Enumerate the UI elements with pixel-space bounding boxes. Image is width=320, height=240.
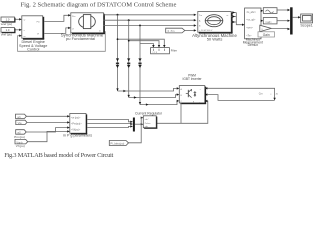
machine m output stubs [231,12,236,14]
svg-text:Pulses: Pulses [145,123,151,125]
svg-text:Gain: Gain [263,33,270,37]
svg-text:50 HP 460 V: 50 HP 460 V [201,30,213,32]
phase wire C [104,25,195,27]
svg-text:<vs_qd>: <vs_qd> [246,18,256,21]
constant block wref [1,17,16,23]
PI_Iabc from tag [109,141,128,146]
wire tag2 to params [27,121,68,123]
feedback wire m to control input [18,32,106,52]
constant block Vref [1,28,16,34]
wire control Pm to sync machine [44,15,68,21]
wire Tm tag to machine [185,29,194,31]
from tag 2 [16,120,27,125]
wire tag4 to params [28,131,68,141]
vertical drop C [139,26,141,105]
svg-text:<is_abc>: <is_abc> [246,11,256,14]
scope block [301,14,313,23]
svg-text:PI_Iabc(pu): PI_Iabc(pu) [110,142,124,146]
gate riser from current regulator [156,101,208,123]
gain label box [258,32,275,37]
bus wire C to inverter [140,101,177,105]
node C [139,25,141,27]
params outputs to regulator mux [87,120,130,122]
signal block A [263,8,277,14]
gate tap to block bottom [180,103,182,123]
connector pair symbol phase C [138,58,142,68]
node A [117,14,119,16]
svg-text:<wm>: <wm> [246,26,253,29]
from tag 4 [15,139,28,144]
phase wire A [104,14,195,16]
PWM IGBT inverter block [179,86,206,105]
bus wire B to inverter [129,95,177,98]
wire const1 to control [16,18,21,20]
from tag 3 [16,130,27,135]
wire mux to regulator [135,123,141,125]
wire block B to mux [277,20,288,22]
svg-text:Scope1: Scope1 [300,23,313,27]
wire demux to gain [260,27,261,29]
wire tag1 to params [26,115,67,117]
phase wire B [104,19,195,21]
svg-text:50 Watts: 50 Watts [207,37,223,42]
wire control Vf to sync machine [44,28,68,34]
svg-text:<w (pu)>: <w (pu)> [71,116,81,119]
wire demux to block B [260,20,263,22]
PI tag riser wire [129,118,142,143]
IGBT icon [187,90,189,97]
regulator input arrows [141,117,144,119]
svg-text:Pm: Pm [72,16,75,18]
from tag 1 [16,114,27,119]
vertical drop A [117,15,119,91]
tap wire A to filter [118,39,165,45]
svg-text:Control: Control [27,47,39,51]
svg-text:m: m [24,36,26,38]
svg-text:w2: w2 [17,131,21,135]
svg-text:Tm: Tm [199,15,202,17]
bus wire A to inverter [118,88,177,91]
machine measurement demux block [245,8,261,39]
svg-text:0 -Tm: 0 -Tm [168,29,175,33]
node B [128,19,130,21]
wire block A to mux [277,9,288,11]
svg-text:abc*: abc* [145,119,149,121]
asynchronous machine block [198,12,233,34]
svg-text:Vref (pu): Vref (pu) [1,33,12,37]
tap wire B to filter [129,41,159,46]
svg-text:w1: w1 [17,115,21,119]
svg-text:Fig.3 MATLAB based model of P: Fig.3 MATLAB based model of Power Circui… [4,152,113,159]
svg-text:Cm: Cm [259,93,263,96]
svg-text:Filter: Filter [171,48,177,52]
svg-text:1.0: 1.0 [6,18,10,22]
connector pair symbol phase B [127,58,131,68]
Tm source tag [166,28,185,33]
svg-text:<Vf(pu)>: <Vf(pu)> [71,128,81,131]
svg-text:m P g parameters: m P g parameters [63,134,92,138]
wire demux to block A [260,10,263,12]
filter block [151,48,170,55]
tap wire C to filter [140,44,153,46]
svg-text:g: g [193,101,194,103]
wire tag3 to params [26,128,67,132]
vertical drop B [128,20,130,97]
svg-text:1.0: 1.0 [6,28,10,32]
mux (scope) bar [290,7,293,34]
svg-text:<Te>: <Te> [246,34,252,37]
svg-text:Current Regulator: Current Regulator [135,111,163,115]
svg-text:IGBT Inverter: IGBT Inverter [182,77,202,81]
svg-text:Vf (pu): Vf (pu) [16,144,25,148]
wire mux to scope [293,16,299,18]
svg-text:<vab>: <vab> [265,21,272,24]
connector pair symbol phase A [116,58,120,68]
wire const2 to control [16,29,21,31]
svg-text:Fig. 2 Schematic diagram of DS: Fig. 2 Schematic diagram of DSTATCOM Con… [21,2,177,9]
svg-text:<Pm(pu)>: <Pm(pu)> [71,122,82,125]
svg-text:Pm: Pm [37,22,40,24]
svg-text:wref (pu): wref (pu) [1,22,12,26]
measurement params block [70,114,87,135]
wire gain to mux [271,27,288,29]
DC return wire [208,95,275,101]
svg-text:Pm (pu): Pm (pu) [14,135,25,139]
svg-text:m: m [227,15,229,17]
svg-text:pu Fundamental: pu Fundamental [66,36,95,41]
wire m bus to demux [236,13,242,25]
synchronous machine block [71,13,105,34]
gain block (triangle) [260,25,272,31]
control block (Diesel Engine Speed & Voltage Control) [22,16,44,40]
regulator mux bar [133,118,135,132]
capacitor node arrow [273,98,275,101]
current regulator block [143,116,157,129]
signal block B [263,18,277,24]
svg-text:Vta: Vta [18,121,22,125]
svg-text:abc: abc [145,126,148,128]
DC+ wire to capacitor [205,88,275,98]
svg-text:Demux: Demux [248,43,259,47]
